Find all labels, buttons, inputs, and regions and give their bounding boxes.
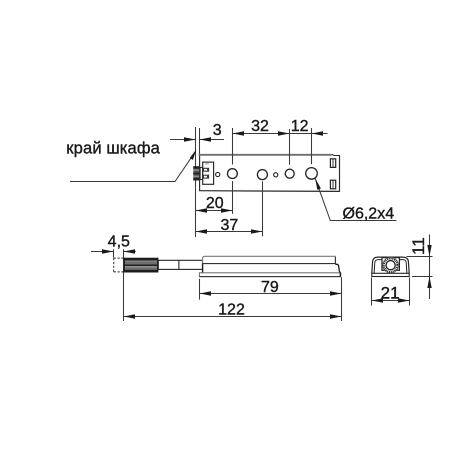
extension line hole1 up xyxy=(232,128,234,165)
base plate (end view) xyxy=(372,273,409,276)
dimension 11 line xyxy=(429,235,431,300)
dimension 4,5 xyxy=(91,251,136,253)
small hole right xyxy=(274,173,278,177)
extension line hole4 up xyxy=(311,128,313,164)
bracket plate body xyxy=(199,154,340,191)
svg-text:4,5: 4,5 xyxy=(108,233,130,250)
extension line hole1 down xyxy=(232,181,234,214)
svg-text:12: 12 xyxy=(291,118,309,135)
dome inner wall lines xyxy=(374,260,407,274)
cable neck xyxy=(158,260,202,269)
cabinet edge line (край шкафа) xyxy=(195,127,197,237)
sensor body cover lower part xyxy=(203,264,341,273)
ring outer rim xyxy=(383,257,399,273)
small hole left xyxy=(216,172,220,176)
svg-text:край шкафа: край шкафа xyxy=(66,139,160,158)
sensor body cover top xyxy=(203,256,336,263)
bracket left edge extension line xyxy=(199,128,201,155)
connector (top view) xyxy=(200,162,213,184)
dimension 20 xyxy=(196,210,233,212)
bracket bottom edge xyxy=(199,190,340,193)
extension line 79 left xyxy=(199,279,201,300)
plug ribbed cylinder (side view) xyxy=(123,258,158,273)
plug hidden tip (dashed) xyxy=(114,258,124,272)
hole 1 xyxy=(228,169,238,179)
hole 3 xyxy=(285,169,294,178)
dimension 12 xyxy=(290,133,328,135)
extension line 21 right xyxy=(409,278,411,306)
dimension 122 xyxy=(124,316,342,318)
neck divider xyxy=(178,260,180,269)
extension line 11 bottom xyxy=(412,276,433,278)
bracket left edge xyxy=(199,155,201,191)
bracket top edge right thin part xyxy=(332,154,340,155)
plate bottom line darker xyxy=(199,276,340,278)
bracket thick top edge (gray) xyxy=(199,154,332,156)
svg-text:122: 122 xyxy=(218,302,245,319)
svg-text:Ø6,2x4: Ø6,2x4 xyxy=(343,205,395,222)
extension line right shared (79 / 122) xyxy=(341,277,343,321)
mounting slot lower (right end) xyxy=(330,180,335,189)
mounting slot upper (right end) xyxy=(330,159,335,168)
plug (top view, ribbed cylinder through cabinet edge) xyxy=(193,166,199,180)
cover inner line xyxy=(203,257,336,264)
hole 4 xyxy=(306,168,318,180)
dimension 32 xyxy=(233,133,290,135)
extension line left shared (4,5 right / 122 left) xyxy=(123,249,125,321)
svg-text:3: 3 xyxy=(213,122,222,139)
dimension 79 xyxy=(200,293,342,295)
inner frame xyxy=(382,258,399,271)
dome outer xyxy=(372,257,409,273)
extension line 11 top xyxy=(407,256,433,258)
base plate (side view) xyxy=(199,273,340,277)
dimension 37 xyxy=(196,231,263,233)
extension line hole3 up xyxy=(289,129,291,165)
svg-text:21: 21 xyxy=(381,284,400,303)
ring inner circle xyxy=(386,261,395,270)
hole 2 xyxy=(257,170,267,180)
svg-text:32: 32 xyxy=(251,118,269,135)
svg-text:20: 20 xyxy=(206,195,224,212)
ribbed ring xyxy=(384,258,398,272)
extension line 21 left xyxy=(371,278,373,306)
extension line 4,5 left xyxy=(113,249,115,257)
svg-text:79: 79 xyxy=(261,279,279,296)
svg-text:37: 37 xyxy=(221,217,239,234)
extension line hole2 down xyxy=(262,181,264,236)
bracket right edge xyxy=(339,155,341,191)
plate right end edge xyxy=(339,272,341,277)
dimension 21 xyxy=(372,300,410,302)
dimension 3 (line + arrows) xyxy=(170,139,224,141)
leader Ø6,2x4 xyxy=(315,178,396,220)
svg-text:11: 11 xyxy=(409,237,428,255)
leader край шкафа xyxy=(70,151,196,181)
